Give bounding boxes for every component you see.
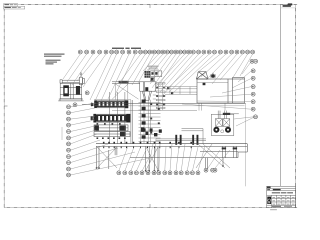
- central valve cells: [150, 71, 161, 81]
- gearbox / motor box right: [196, 72, 244, 103]
- revision table top-left: [4, 4, 25, 9]
- leader lines left fan: [70, 103, 96, 107]
- balloon column: right callouts: [251, 69, 255, 73]
- callout balloons: [62, 50, 258, 177]
- balloon: motor flange callout: [85, 91, 89, 95]
- bed legs: [97, 146, 237, 170]
- pump platform lines: [182, 129, 204, 144]
- balloon row: bottom callouts: [117, 171, 121, 175]
- title block: [267, 186, 296, 210]
- central gear tower labels: [148, 65, 159, 68]
- leg feet pads: [96, 165, 224, 171]
- border ruler ticks: [4, 5, 297, 208]
- roller assembly 3: [94, 125, 128, 131]
- dimension tick left: [61, 127, 63, 140]
- balloon: roller shaft callout: [73, 103, 77, 107]
- central checker block: [145, 71, 150, 78]
- centre fold marks: [4, 5, 150, 208]
- support braces under top rail: [112, 83, 138, 99]
- view title text: [112, 48, 124, 49]
- nut row below roller 4: [97, 137, 126, 139]
- roller assembly 2: [94, 114, 130, 122]
- pump trolley detail box: [211, 111, 239, 136]
- roller assembly 4 lower frame: [94, 132, 130, 137]
- leader lines: [63, 54, 254, 175]
- balloon row: top callouts: [78, 50, 82, 54]
- tower bearing blocks: [142, 100, 146, 139]
- right rail to gearbox: [165, 87, 197, 95]
- flange column: [156, 83, 165, 110]
- top rail: [112, 82, 140, 84]
- machine bed plates: [96, 144, 247, 158]
- balloon bend top-right pair: [250, 59, 254, 63]
- central tower body: [139, 91, 161, 143]
- sheet border frame: [4, 5, 295, 208]
- left hydraulic actuator assembly: [58, 73, 84, 101]
- balloon column: left callouts: [67, 105, 71, 109]
- sheet number top-right: [288, 3, 292, 5]
- balloon: pump detail callout: [254, 115, 258, 119]
- under-gearbox rail: [95, 105, 245, 107]
- leader lines right fan: [242, 61, 251, 74]
- drive shaft with flange pairs: [156, 139, 206, 141]
- lower cluster dark parts: [141, 127, 144, 131]
- bed anchor bolts: [103, 142, 192, 148]
- bed cross braces: [97, 144, 230, 170]
- leader lines bottom fan: [119, 146, 128, 171]
- roller assembly 1: [82, 101, 128, 108]
- machine drawing: [44, 48, 247, 187]
- parts list column: [281, 5, 296, 187]
- nut row above roller 3: [97, 123, 121, 125]
- roller stub nuts: [91, 103, 93, 106]
- frame uprights: [110, 92, 133, 144]
- roller stub shafts: [91, 102, 96, 120]
- gear case box: [140, 82, 156, 91]
- mid rail: [112, 110, 197, 112]
- leader lines top fan: [63, 54, 80, 79]
- discharge chute: [142, 91, 151, 100]
- notes text block: [44, 54, 65, 65]
